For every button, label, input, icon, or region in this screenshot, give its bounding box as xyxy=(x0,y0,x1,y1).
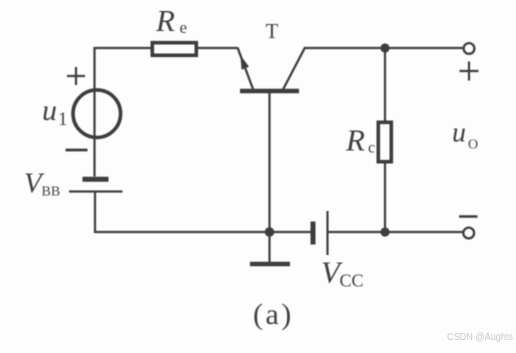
ground stem xyxy=(268,232,270,262)
wire Rc lower xyxy=(384,162,386,232)
terminal output plus circle xyxy=(464,43,475,54)
source u1 circle xyxy=(73,90,121,138)
svg-text:c: c xyxy=(368,140,375,157)
resistor Re xyxy=(152,43,196,56)
ground bar xyxy=(250,262,290,267)
plus sign near source xyxy=(67,67,85,85)
wire left branch vertical upper xyxy=(93,47,95,177)
minus sign near source xyxy=(66,149,88,152)
svg-text:BB: BB xyxy=(42,185,61,200)
wire bottom rail left xyxy=(94,231,311,233)
terminal output minus circle xyxy=(463,228,474,239)
battery VBB thick bar xyxy=(83,177,109,182)
minus sign output xyxy=(459,215,478,218)
wire top rail left xyxy=(94,47,152,49)
node collector-Rc xyxy=(380,43,389,52)
svg-text:(a): (a) xyxy=(253,298,294,331)
transistor T collector xyxy=(283,48,305,90)
svg-text:u: u xyxy=(42,94,57,127)
plus sign output xyxy=(460,62,479,81)
svg-text:1: 1 xyxy=(58,109,68,130)
svg-text:u: u xyxy=(452,118,466,149)
svg-text:R: R xyxy=(345,123,365,158)
svg-text:T: T xyxy=(266,19,279,43)
battery VCC thin bar xyxy=(326,211,328,255)
svg-text:CC: CC xyxy=(340,271,364,291)
wire base to ground node xyxy=(268,92,270,232)
transistor emitter arrowhead xyxy=(240,55,249,70)
node ground junction xyxy=(265,227,275,237)
transistor T emitter xyxy=(238,48,254,90)
wire Re to emitter xyxy=(196,47,238,49)
svg-text:CSDN @Aughts: CSDN @Aughts xyxy=(447,331,513,343)
battery VCC thick bar xyxy=(311,222,316,245)
svg-text:e: e xyxy=(180,18,188,37)
wire bottom rail right xyxy=(329,231,463,233)
resistor Rc xyxy=(378,122,391,161)
battery VBB thin bar xyxy=(69,190,123,192)
wire top rail right xyxy=(304,47,463,49)
transistor T base bar xyxy=(240,89,299,93)
wire left branch vertical lower xyxy=(94,193,96,234)
wire Rc upper xyxy=(384,48,386,121)
node Rc-bottom rail xyxy=(380,227,389,236)
svg-text:O: O xyxy=(468,138,478,153)
svg-text:R: R xyxy=(155,3,175,38)
